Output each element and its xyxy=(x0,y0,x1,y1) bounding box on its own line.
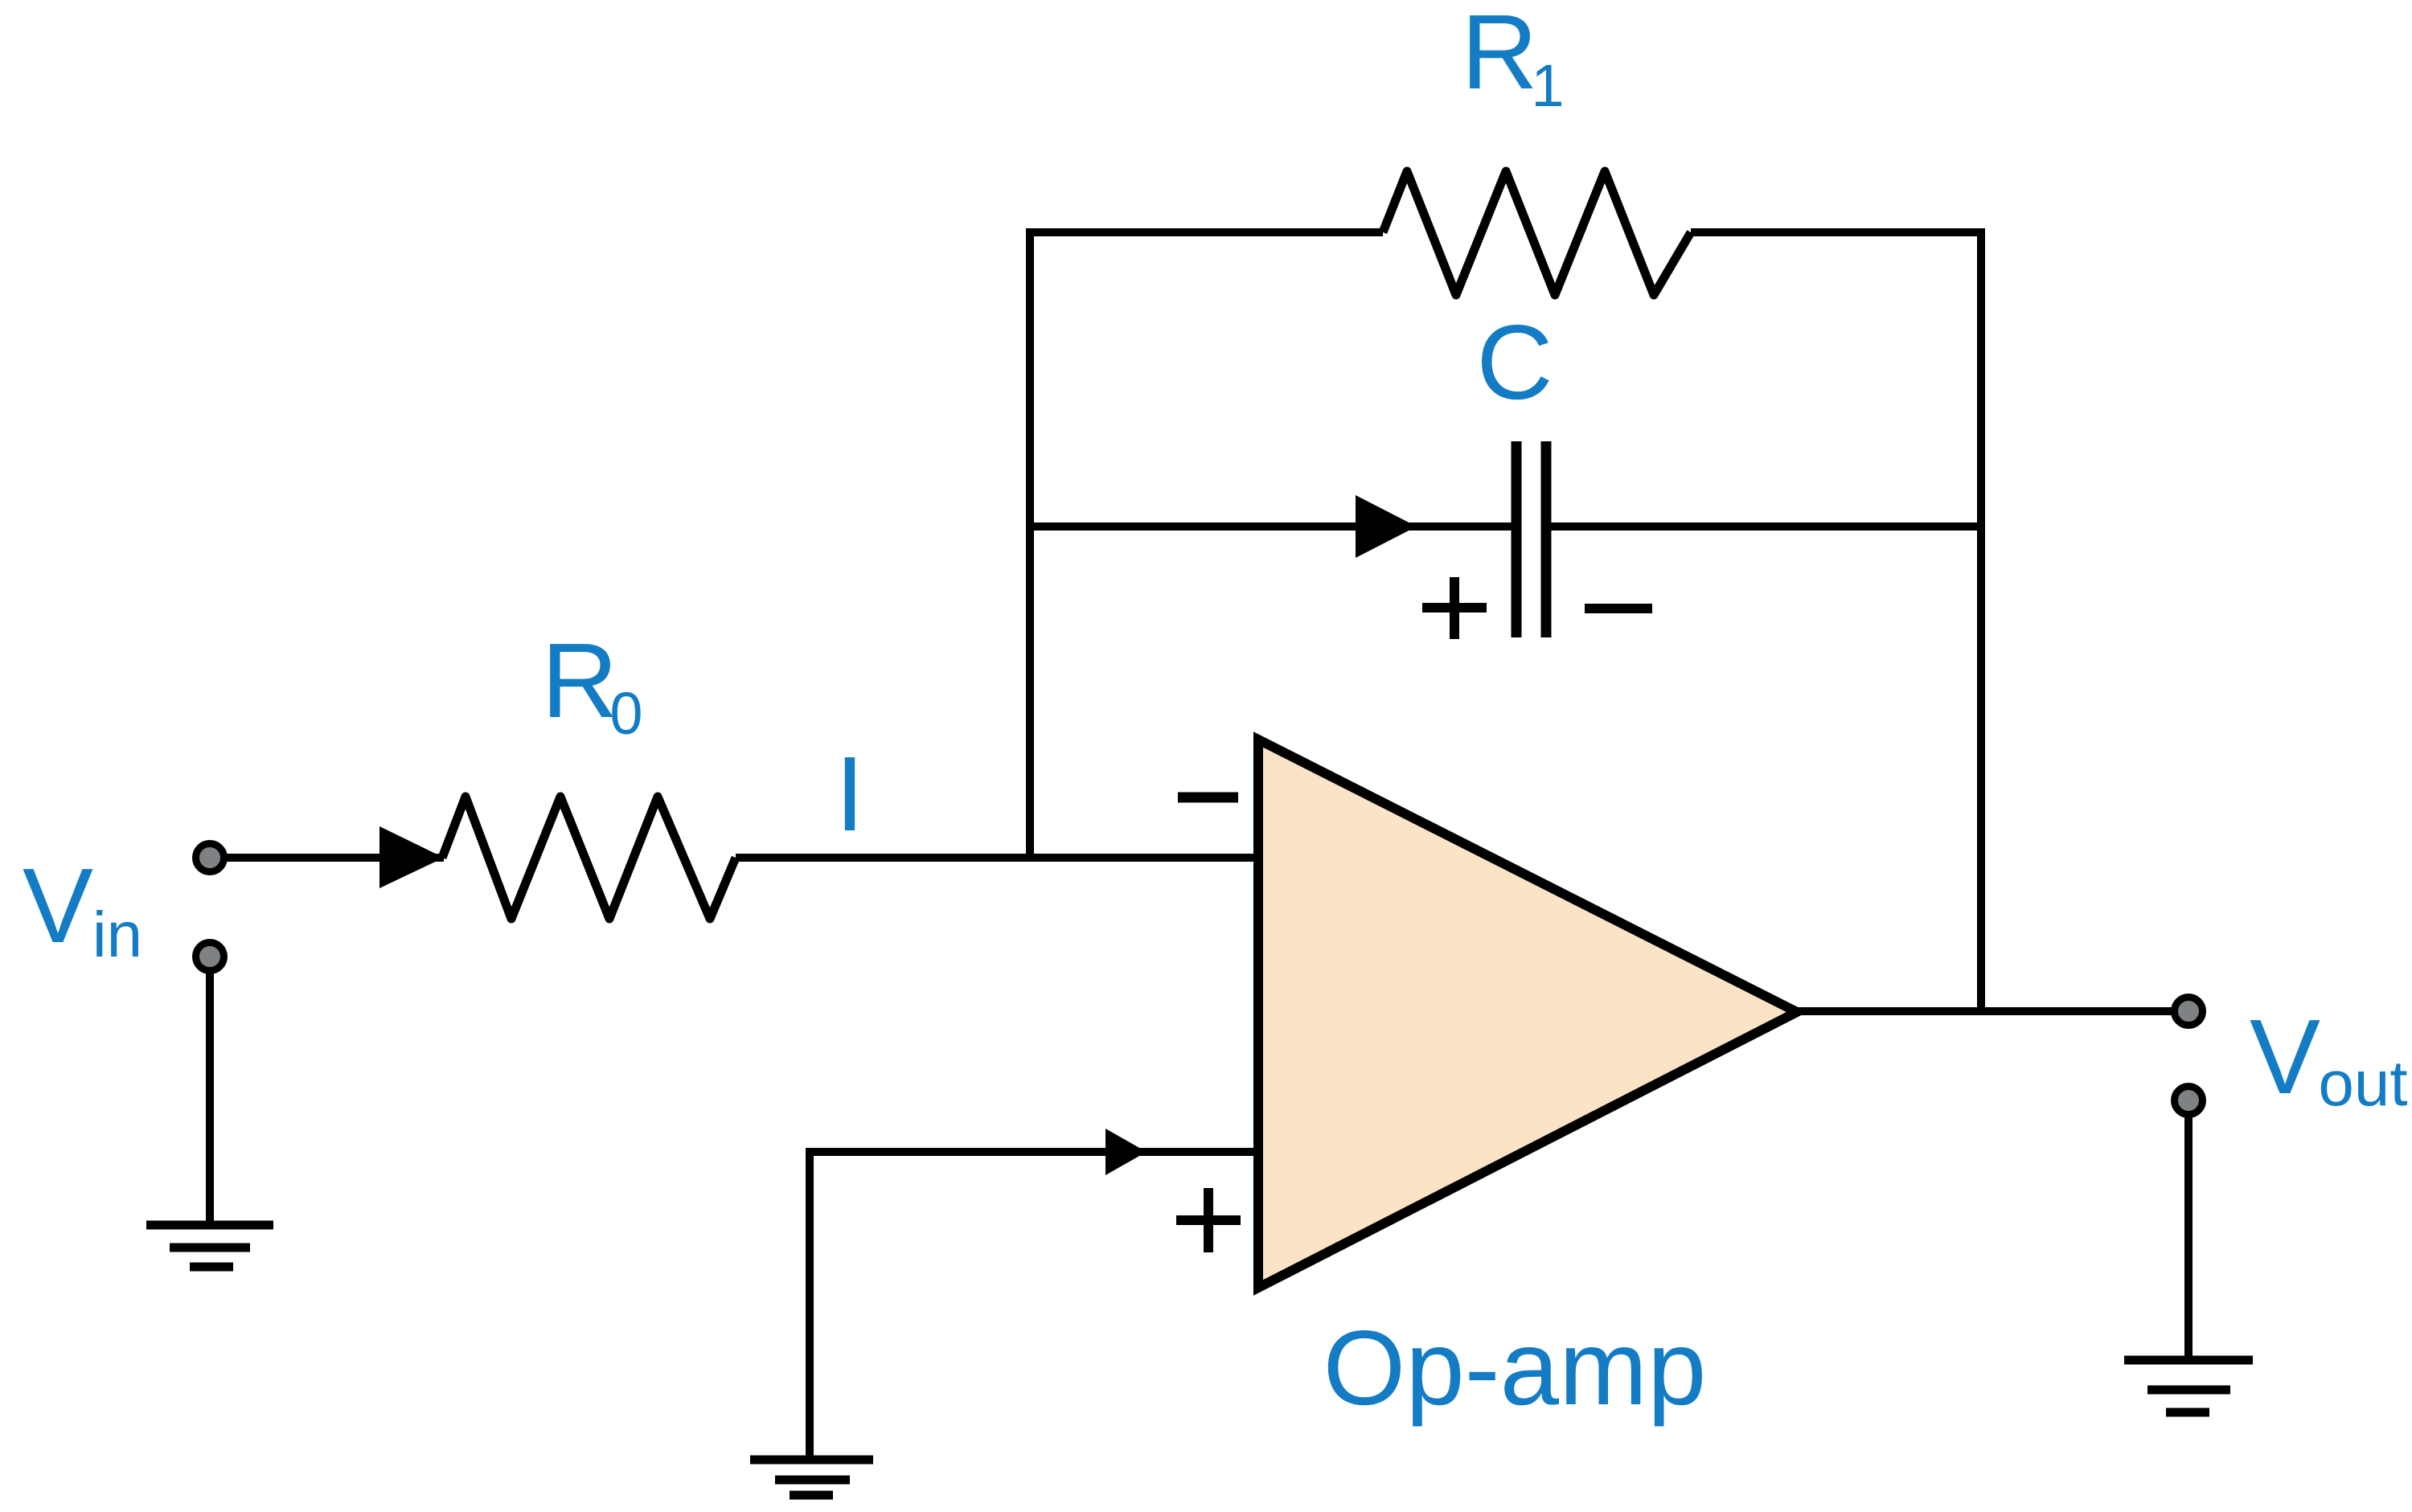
ground at Vin xyxy=(146,1221,273,1230)
wire feedback left riser and top run to R1 xyxy=(1030,232,1383,858)
wire Vout lower dot to ground xyxy=(2184,1114,2193,1360)
svg-text:R: R xyxy=(541,621,617,740)
capacitor minus polarity mark xyxy=(1585,604,1652,613)
wire R1 to right riser and down to output xyxy=(1691,232,1981,1011)
resistor R0 xyxy=(442,797,736,919)
wire R0 to op-amp inverting input xyxy=(736,854,1258,862)
op-amp non-inverting input plus sign xyxy=(1176,1215,1241,1225)
wire Vin lower dot to ground xyxy=(206,970,214,1225)
wire capacitor branch left xyxy=(1030,522,1516,531)
op-amp U1 triangle xyxy=(1258,740,1797,1288)
current arrow on non-inverting wire xyxy=(1105,1129,1147,1175)
svg-text:1: 1 xyxy=(1531,52,1564,119)
current direction arrow on input wire xyxy=(379,826,444,888)
resistor R1 xyxy=(1383,171,1691,295)
wire non-inverting input xyxy=(810,1152,1258,1460)
svg-text:Op-amp: Op-amp xyxy=(1323,1309,1707,1427)
svg-text:C: C xyxy=(1476,303,1553,421)
capacitor C left plate xyxy=(1512,441,1522,637)
wire Vin node to resistor R0 xyxy=(210,854,444,862)
op-amp inverting input minus sign xyxy=(1178,793,1238,803)
ground at Vout xyxy=(2124,1356,2253,1365)
wire op-amp output to Vout xyxy=(1797,1007,2188,1015)
wire capacitor branch right xyxy=(1546,522,1981,531)
svg-text:R: R xyxy=(1461,0,1537,111)
current direction arrow on capacitor branch xyxy=(1356,495,1417,558)
capacitor C right plate xyxy=(1541,441,1552,637)
terminal dot Vout upper xyxy=(2175,998,2203,1026)
ground at non-inverting input xyxy=(750,1456,873,1465)
svg-text:0: 0 xyxy=(609,680,642,747)
terminal dot Vin lower xyxy=(196,943,224,971)
svg-text:V: V xyxy=(23,846,93,965)
svg-text:V: V xyxy=(2250,998,2320,1116)
svg-text:I: I xyxy=(835,735,865,853)
terminal dot Vin upper xyxy=(196,844,224,872)
svg-text:out: out xyxy=(2318,1047,2407,1119)
svg-text:in: in xyxy=(92,899,142,970)
capacitor plus polarity mark xyxy=(1422,603,1487,613)
terminal dot Vout lower xyxy=(2175,1087,2203,1115)
